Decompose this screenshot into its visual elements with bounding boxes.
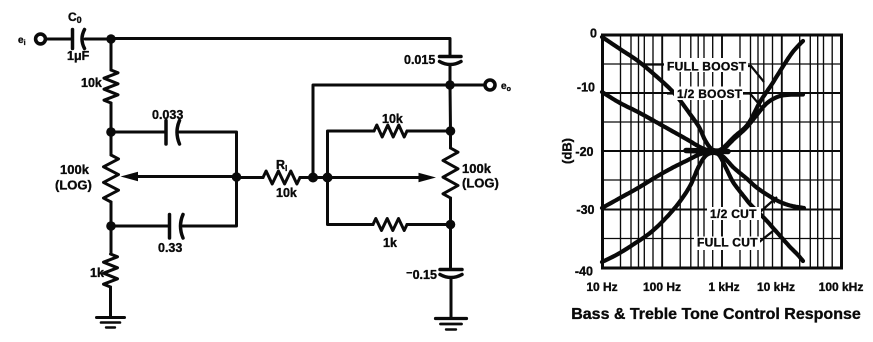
svg-text:10k: 10k [382,112,403,126]
svg-text:FULL BOOST: FULL BOOST [667,60,747,74]
resistor 10k (input) [104,70,118,103]
capacitor 0.033 [164,121,168,145]
svg-text:-30: -30 [576,203,594,217]
white mask under curve labels [664,58,748,72]
capacitor 0.33 [168,215,172,239]
wire node F down to 1k branch [328,178,374,225]
curve FULL BOOST [602,37,803,151]
pointer 1/2 BOOST [740,94,764,111]
wiper arrow of bass pot [134,175,237,178]
svg-text:1μF: 1μF [67,49,90,63]
wire node A down [110,39,113,70]
wire 1k to ground [109,287,112,318]
chart major horizontal gridlines [603,93,842,210]
wire 0.015 to node I [449,65,452,86]
resistor 1k (left) [104,254,118,287]
wire node C down to 1k [110,226,113,254]
node A junction [106,34,115,43]
leader FULL BOOST left [642,63,666,65]
wire 0.15 to ground [450,278,453,319]
wire 0.033 to right rail [180,132,237,177]
svg-text:-20: -20 [575,145,593,159]
capacitor C0 1uF [71,30,75,49]
svg-text:1/2 CUT: 1/2 CUT [710,207,757,221]
wire feedback node E up to output line [313,85,446,178]
svg-text:⁻0.15: ⁻0.15 [406,268,437,282]
svg-text:10 Hz: 10 Hz [586,280,617,294]
svg-text:1k: 1k [90,266,104,280]
svg-text:1 kHz: 1 kHz [708,280,739,294]
curve FULL CUT [602,153,803,262]
wire 10k branch to right rail [407,130,451,133]
chart minor horizontal gridlines [603,64,842,239]
svg-text:0.33: 0.33 [158,241,182,255]
svg-text:10k: 10k [276,186,297,200]
wire R_I to node E [300,176,328,179]
node C junction (bass pot bottom) [106,221,116,231]
wire 10k to node B [110,103,113,132]
node I junction (output node) [445,80,454,89]
curve 1/2 CUT [602,152,804,208]
potentiometer 100k LOG (treble) [449,131,452,148]
ground (right) [436,317,467,320]
svg-text:100k: 100k [462,161,492,176]
node H junction [446,220,456,230]
resistor 1k (treble bottom) [373,219,407,231]
potentiometer 100k LOG (bass) [110,132,113,155]
svg-text:100 kHz: 100 kHz [819,280,864,294]
svg-text:Bass & Treble Tone Control Res: Bass & Treble Tone Control Response [571,306,861,323]
capacitor 0.015 [440,55,462,59]
svg-text:FULL CUT: FULL CUT [697,236,758,250]
node E junction [308,173,318,183]
leader 1/2 BOOST left [667,92,676,94]
wire node B to 0.033 [111,131,165,134]
svg-text:1/2 BOOST: 1/2 BOOST [677,87,743,101]
node G junction [446,126,456,136]
node F junction [323,173,333,183]
svg-text:-40: -40 [575,265,593,279]
svg-text:0.015: 0.015 [404,53,435,67]
svg-text:(LOG): (LOG) [462,176,499,191]
wire node I to output terminal [450,84,484,87]
svg-text:-10: -10 [577,81,595,95]
svg-text:(LOG): (LOG) [55,178,92,193]
wire node H down to 0.15 cap [449,225,452,270]
input terminal e_i [36,34,46,44]
wire input to C0 [46,38,72,41]
svg-text:(dB): (dB) [560,138,575,164]
wire node I down to node G [449,85,453,131]
pointer FULL BOOST [745,66,764,82]
wire node F up to 10k branch [328,131,375,178]
resistor R_I 10k [263,171,300,184]
pointer FULL CUT [758,231,773,243]
wire node C to 0.33 [111,225,169,228]
wiper arrow of treble pot [328,176,423,179]
chart major vertical gridlines [662,35,782,268]
svg-text:100k: 100k [60,162,90,177]
chart minor vertical gridlines [621,35,833,268]
wire C0 to node A [85,38,111,41]
svg-text:0: 0 [590,27,597,41]
node D junction (wiper rail) [232,172,242,182]
resistor 10k (treble top) [374,125,407,137]
svg-text:10 kHz: 10 kHz [757,280,795,294]
svg-text:0.033: 0.033 [152,108,183,122]
pointer 1/2 CUT [760,197,777,212]
crossover knot at 1 kHz [686,151,728,152]
capacitor 0.15 [440,268,462,272]
ground (left) [97,316,125,319]
wire 1k branch to node H [407,223,451,226]
svg-text:1k: 1k [383,236,397,250]
output terminal e_o [485,80,495,90]
svg-text:10k: 10k [81,76,102,90]
node B junction [106,127,116,137]
wire top rail to 0.015 cap corner [111,39,450,57]
chart border [603,35,842,268]
curve 1/2 BOOST [602,92,803,152]
svg-text:100 Hz: 100 Hz [643,280,681,294]
wire node D to R_I [237,176,264,179]
wire 0.33 to right rail [183,177,237,226]
